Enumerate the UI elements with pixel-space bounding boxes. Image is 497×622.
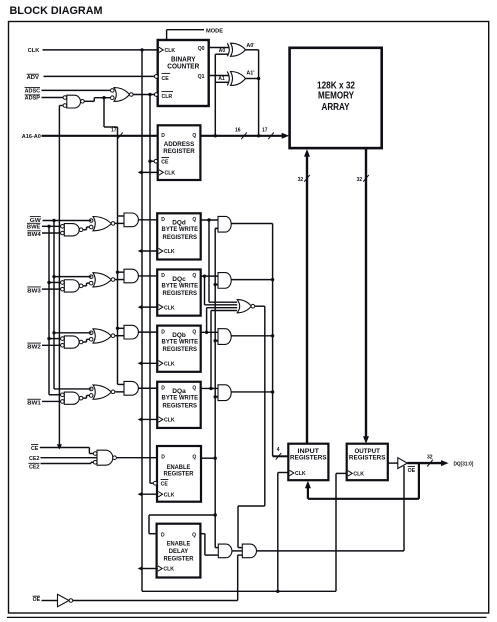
svg-text:BW2: BW2 xyxy=(27,345,41,351)
and gate G24 (output enable combine) xyxy=(238,544,404,558)
svg-text:REGISTERS: REGISTERS xyxy=(163,402,198,409)
wire bus input data to memory xyxy=(298,149,310,444)
svg-text:CLK: CLK xyxy=(164,362,175,368)
xor gate G4 (A1) xyxy=(218,72,245,86)
svg-text:A16-A0: A16-A0 xyxy=(22,134,41,140)
wire chip-enable feedback rail xyxy=(58,106,60,448)
svg-text:CE: CE xyxy=(161,160,169,166)
node write bus tap xyxy=(271,390,274,393)
wire address register CE tap xyxy=(150,160,154,162)
svg-text:Q: Q xyxy=(192,329,196,335)
BWE input xyxy=(27,223,61,230)
svg-text:DELAY: DELAY xyxy=(169,548,189,555)
BW2 input xyxy=(27,343,60,350)
svg-text:CE2: CE2 xyxy=(29,464,40,470)
svg-text:OE: OE xyxy=(408,468,416,474)
wire enable to delay D xyxy=(149,515,215,534)
svg-text:ADSP: ADSP xyxy=(25,96,41,102)
nand gate G11 (BW2 qualifier) xyxy=(61,336,90,348)
enable register U3 xyxy=(153,446,201,502)
svg-text:ADV: ADV xyxy=(27,75,40,81)
svg-text:CE2: CE2 xyxy=(29,456,40,462)
svg-text:CLK: CLK xyxy=(28,48,40,54)
svg-text:A0': A0' xyxy=(246,43,254,49)
svg-text:17: 17 xyxy=(111,128,117,134)
wire DQb Q xyxy=(201,331,218,333)
svg-text:CLK: CLK xyxy=(164,305,175,311)
inverter G25 (OE buffer) xyxy=(58,594,238,606)
svg-text:REGISTERS: REGISTERS xyxy=(163,346,198,353)
svg-text:REGISTER: REGISTER xyxy=(164,555,194,562)
svg-text:ADSC: ADSC xyxy=(25,89,41,95)
enable delay register U4 xyxy=(157,524,201,578)
wire bus write enables xyxy=(273,224,289,460)
svg-text:BWE: BWE xyxy=(27,225,41,231)
wire input registers CLK xyxy=(278,473,290,592)
nand gate G8 (BW3 qualifier) xyxy=(61,280,90,292)
wire enable rail top stub xyxy=(215,227,218,229)
svg-text:CE: CE xyxy=(161,482,169,488)
ADSC input xyxy=(25,88,111,95)
wire DQc CLK tap xyxy=(142,306,158,308)
GW input xyxy=(30,217,92,224)
CE input xyxy=(31,445,93,454)
nand gate G5 (BW4 qualifier) xyxy=(61,224,90,236)
svg-text:CLK: CLK xyxy=(164,492,175,498)
wire enable register CE tap xyxy=(150,482,154,484)
svg-text:D: D xyxy=(161,455,165,461)
svg-text:BYTE WRITE: BYTE WRITE xyxy=(162,282,199,289)
wire DQa CLK tap xyxy=(142,418,158,420)
and gate G13 (write clock DQb) xyxy=(118,325,158,339)
BW1 input xyxy=(27,399,60,406)
svg-text:D: D xyxy=(161,385,165,391)
wire DQb to write-nor xyxy=(207,308,238,333)
and gate G19 (byte write enable DQb) xyxy=(215,329,272,345)
svg-text:32: 32 xyxy=(357,177,363,183)
node write bus tap xyxy=(271,278,274,281)
wire CE rail (load) xyxy=(149,95,151,484)
byte write register DQc xyxy=(157,269,201,315)
CLK input xyxy=(28,48,159,54)
node enable rail join xyxy=(214,457,217,460)
svg-text:CLK: CLK xyxy=(164,249,175,255)
svg-text:BW1: BW1 xyxy=(27,401,41,407)
wire A0p A1p riser xyxy=(245,50,260,136)
ADV input xyxy=(27,74,155,81)
svg-text:REGISTERS: REGISTERS xyxy=(163,234,198,241)
svg-text:CLK: CLK xyxy=(353,472,364,478)
svg-text:32: 32 xyxy=(427,454,433,460)
nor gate G12 (write combine BW2) xyxy=(89,329,124,343)
wire CLK rail bottom run xyxy=(142,473,347,591)
wire Q1 xyxy=(209,75,229,77)
svg-text:MEMORY: MEMORY xyxy=(318,90,354,101)
node load rail tap xyxy=(116,327,119,330)
nand gate G14 (BW1 qualifier) xyxy=(61,392,90,404)
node enable rail tap xyxy=(214,339,217,342)
wire delay register CLK tap xyxy=(142,568,158,570)
wire enable register Q xyxy=(201,457,215,459)
svg-text:CLK: CLK xyxy=(165,171,176,177)
node load junction xyxy=(102,96,105,99)
svg-text:Q1: Q1 xyxy=(198,74,205,80)
wire bus memory to output registers xyxy=(357,148,369,444)
node enable rail delay tap xyxy=(214,513,217,516)
wire DQc to write-nor xyxy=(205,276,238,305)
wire GW rail xyxy=(53,221,55,389)
nor gate G6 (write combine BW4) xyxy=(89,217,124,231)
node DQa Q tap xyxy=(209,387,212,390)
wire OE to output gate xyxy=(237,555,239,600)
svg-text:CLK: CLK xyxy=(164,418,175,424)
node load rail tap xyxy=(116,270,119,273)
svg-text:BW3: BW3 xyxy=(27,288,41,294)
node GW rail origin xyxy=(52,219,55,222)
svg-text:BLOCK DIAGRAM: BLOCK DIAGRAM xyxy=(10,5,103,17)
BW3 input xyxy=(27,287,60,294)
wire BWE rail xyxy=(48,226,50,394)
wire bus DQ feedback xyxy=(305,463,419,499)
svg-text:OE: OE xyxy=(33,597,41,603)
svg-text:D: D xyxy=(161,532,165,538)
svg-text:Q: Q xyxy=(192,217,196,223)
svg-text:Q: Q xyxy=(192,532,196,538)
CE2 input xyxy=(29,456,97,462)
and gate G23 (enable & delayed) xyxy=(215,544,242,558)
svg-text:Q0: Q0 xyxy=(198,46,205,52)
svg-text:CLR: CLR xyxy=(162,94,173,100)
svg-text:Q: Q xyxy=(192,455,196,461)
node enable rail tap xyxy=(214,283,217,286)
CE2bar input xyxy=(28,462,93,470)
OE input xyxy=(33,596,58,603)
nand gate G22 (chip enable combine) xyxy=(93,450,157,465)
node BWE rail tap xyxy=(47,337,50,340)
svg-text:4: 4 xyxy=(277,447,280,453)
svg-text:D: D xyxy=(161,217,165,223)
node CE feedback junction xyxy=(57,444,62,449)
bottom rule xyxy=(7,616,487,618)
svg-text:Q: Q xyxy=(192,385,196,391)
svg-text:CE: CE xyxy=(162,76,170,82)
svg-text:CLK: CLK xyxy=(163,567,174,573)
svg-text:REGISTER: REGISTER xyxy=(163,148,195,155)
node enable rail tap xyxy=(214,395,217,398)
svg-text:ARRAY: ARRAY xyxy=(322,102,350,113)
wire enable rail xyxy=(214,228,216,547)
node BWE rail origin xyxy=(47,225,50,228)
tristate buffer G26 xyxy=(398,458,416,474)
svg-text:17: 17 xyxy=(262,128,268,134)
svg-text:REGISTERS: REGISTERS xyxy=(163,290,198,297)
node CE-rail junction xyxy=(148,93,151,96)
address register U2 xyxy=(154,125,200,180)
nor gate G9 (write combine BW3) xyxy=(89,273,124,287)
wire DQd CLK tap xyxy=(142,250,158,252)
wire DQd to write-nor xyxy=(209,220,237,302)
xor gate G3 (A0) xyxy=(219,43,246,56)
node CLK rail junction xyxy=(140,48,143,51)
byte write register DQa xyxy=(157,382,201,428)
wire DQa Q xyxy=(201,387,218,389)
node input CLK junction xyxy=(276,590,279,593)
svg-text:BYTE WRITE: BYTE WRITE xyxy=(162,226,199,233)
wire write detect to output gate xyxy=(238,306,265,547)
wire bus address to memory xyxy=(200,128,289,140)
nor gate G2 (ADSC/ADSP combine) xyxy=(111,88,156,102)
svg-text:CE: CE xyxy=(31,446,39,452)
byte write register DQb xyxy=(157,326,201,372)
wire bus DQ xyxy=(407,454,473,467)
wire CLK rail xyxy=(141,50,143,591)
node write bus tap xyxy=(271,334,274,337)
wire enable register CLK tap xyxy=(142,493,158,495)
wire DQc Q xyxy=(201,275,218,277)
node GW rail tap xyxy=(54,388,91,390)
node DQb Q tap xyxy=(205,331,208,334)
and gate G16 (write clock DQa) xyxy=(118,381,158,395)
svg-text:REGISTER: REGISTER xyxy=(164,471,194,478)
svg-text:A0: A0 xyxy=(219,48,226,54)
svg-text:BW4: BW4 xyxy=(27,232,41,238)
wire DQb CLK tap xyxy=(142,362,158,364)
node DQd Q tap xyxy=(207,218,210,221)
nand gate G1 (ADSP qualifier) xyxy=(59,95,110,108)
nor gate G15 (write combine BW1) xyxy=(89,385,124,399)
wire A0 A1 riser xyxy=(215,54,228,136)
nor gate G21 (write detect) xyxy=(237,300,265,313)
node DQc Q tap xyxy=(203,274,206,277)
svg-text:16: 16 xyxy=(235,128,241,134)
MODE pin wire xyxy=(167,28,224,40)
wire delay register Q jog xyxy=(200,534,218,555)
memory array M1 128Kx32 xyxy=(290,48,382,148)
svg-text:Q: Q xyxy=(192,273,196,279)
svg-text:REGISTERS: REGISTERS xyxy=(290,454,327,461)
svg-text:32: 32 xyxy=(298,177,304,183)
svg-text:COUNTER: COUNTER xyxy=(167,64,199,71)
wire output registers to buffer xyxy=(388,462,398,464)
and gate G20 (byte write enable DQa) xyxy=(215,385,272,401)
svg-text:CLK: CLK xyxy=(165,48,176,54)
svg-text:D: D xyxy=(161,133,165,139)
input registers U5 xyxy=(288,444,328,481)
ADSP input xyxy=(25,95,63,102)
svg-text:Q: Q xyxy=(192,133,196,139)
svg-text:BINARY: BINARY xyxy=(171,57,196,64)
wire address register CLK tap xyxy=(142,171,159,173)
svg-text:BYTE WRITE: BYTE WRITE xyxy=(162,395,199,402)
wire Q0 xyxy=(209,47,229,49)
svg-text:ENABLE: ENABLE xyxy=(167,541,191,548)
and gate G7 (write clock DQd) xyxy=(118,213,158,227)
svg-text:DQ[31:0]: DQ[31:0] xyxy=(454,462,474,468)
svg-text:REGISTERS: REGISTERS xyxy=(349,454,386,461)
svg-text:A1: A1 xyxy=(218,76,225,82)
wire bus A16-A0 xyxy=(22,128,159,141)
node BWE rail tap xyxy=(49,394,61,396)
output registers U6 xyxy=(347,444,388,481)
svg-text:BYTE WRITE: BYTE WRITE xyxy=(162,339,199,346)
wire load rail to write gates xyxy=(104,98,118,385)
BW4 input xyxy=(27,231,60,238)
svg-text:A1': A1' xyxy=(246,71,254,77)
and gate G17 (byte write enable DQd) xyxy=(215,216,272,232)
wire output enable to buffer xyxy=(403,466,405,551)
wire DQd Q xyxy=(201,219,218,221)
svg-text:D: D xyxy=(161,273,165,279)
node GW rail tap xyxy=(52,275,55,278)
and gate G18 (byte write enable DQc) xyxy=(215,273,272,289)
svg-text:CLK: CLK xyxy=(295,471,306,477)
node GW rail tap xyxy=(52,331,55,334)
and gate G10 (write clock DQc) xyxy=(118,269,158,283)
node BWE rail tap xyxy=(47,281,50,284)
byte write register DQd xyxy=(157,213,201,259)
svg-text:MODE: MODE xyxy=(206,28,223,34)
binary counter U1 xyxy=(154,40,208,106)
svg-text:D: D xyxy=(161,329,165,335)
wire DQa to write-nor xyxy=(211,311,237,389)
